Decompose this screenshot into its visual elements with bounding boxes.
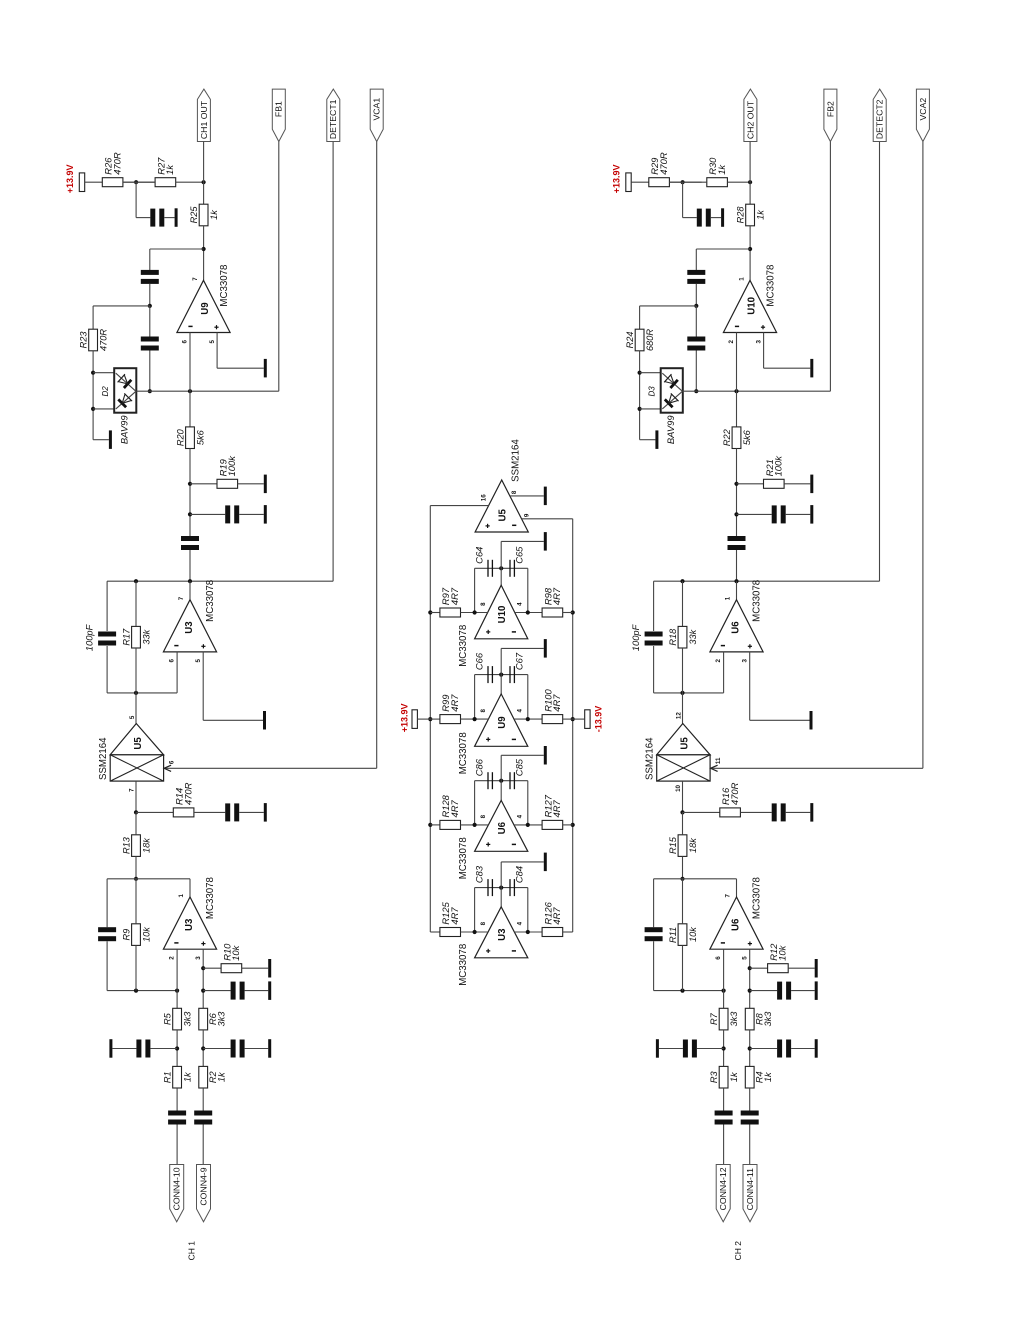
svg-text:U9: U9 xyxy=(497,716,508,729)
svg-text:8: 8 xyxy=(511,490,518,494)
svg-text:9: 9 xyxy=(524,513,531,517)
svg-text:R1: R1 xyxy=(163,1071,173,1083)
svg-text:SSM2164: SSM2164 xyxy=(98,737,109,780)
svg-text:1k: 1k xyxy=(763,1072,773,1082)
svg-text:7: 7 xyxy=(178,596,185,600)
svg-text:1: 1 xyxy=(738,277,745,281)
svg-text:R25: R25 xyxy=(189,206,199,224)
svg-text:33k: 33k xyxy=(688,629,698,644)
svg-text:6: 6 xyxy=(182,340,189,344)
svg-text:R24: R24 xyxy=(625,332,635,349)
svg-text:4R7: 4R7 xyxy=(551,907,562,925)
svg-text:10k: 10k xyxy=(230,944,241,960)
svg-text:C86: C86 xyxy=(474,758,485,776)
svg-text:R11: R11 xyxy=(668,927,678,943)
svg-text:5k6: 5k6 xyxy=(196,429,206,445)
svg-text:DETECT1: DETECT1 xyxy=(328,99,338,139)
svg-text:100k: 100k xyxy=(773,455,784,477)
svg-text:D3: D3 xyxy=(648,386,657,397)
svg-text:6: 6 xyxy=(168,760,175,764)
svg-text:1: 1 xyxy=(725,596,732,600)
svg-text:C85: C85 xyxy=(514,758,525,776)
svg-text:SSM2164: SSM2164 xyxy=(645,737,656,780)
svg-text:SSM2164: SSM2164 xyxy=(511,439,522,482)
svg-text:4R7: 4R7 xyxy=(449,587,460,605)
svg-text:7: 7 xyxy=(725,894,732,898)
svg-text:C65: C65 xyxy=(514,546,525,564)
svg-text:3k3: 3k3 xyxy=(729,1011,739,1027)
svg-text:R3: R3 xyxy=(709,1070,719,1083)
svg-text:1k: 1k xyxy=(756,210,766,220)
svg-text:U3: U3 xyxy=(184,621,195,634)
svg-text:2: 2 xyxy=(728,340,735,344)
svg-text:4R7: 4R7 xyxy=(449,907,460,925)
svg-text:U3: U3 xyxy=(184,918,195,931)
svg-text:R15: R15 xyxy=(668,836,678,854)
svg-text:470R: 470R xyxy=(658,152,669,175)
svg-text:R22: R22 xyxy=(722,429,732,446)
svg-text:4R7: 4R7 xyxy=(449,800,460,818)
svg-text:U5: U5 xyxy=(679,737,690,750)
svg-text:CH1 OUT: CH1 OUT xyxy=(199,100,209,139)
svg-text:BAV99: BAV99 xyxy=(665,415,676,444)
svg-text:10k: 10k xyxy=(142,927,152,942)
svg-text:+13.9V: +13.9V xyxy=(399,704,409,733)
svg-text:3k3: 3k3 xyxy=(183,1011,193,1027)
svg-text:C83: C83 xyxy=(474,865,485,883)
svg-text:5: 5 xyxy=(195,659,202,663)
svg-text:10k: 10k xyxy=(688,927,698,942)
svg-text:CONN4-12: CONN4-12 xyxy=(718,1167,728,1210)
svg-text:+13.9V: +13.9V xyxy=(65,165,75,194)
svg-text:DETECT2: DETECT2 xyxy=(875,99,885,139)
svg-text:7: 7 xyxy=(129,788,136,792)
svg-text:MC33078: MC33078 xyxy=(205,877,216,919)
svg-text:BAV99: BAV99 xyxy=(119,415,130,444)
svg-text:+13.9V: +13.9V xyxy=(612,165,622,194)
svg-text:4R7: 4R7 xyxy=(551,800,562,818)
svg-text:4R7: 4R7 xyxy=(551,587,562,605)
svg-text:MC33078: MC33078 xyxy=(219,265,230,307)
svg-text:R17: R17 xyxy=(121,628,131,646)
svg-text:CH2 OUT: CH2 OUT xyxy=(745,100,755,139)
svg-text:100pF: 100pF xyxy=(84,623,95,651)
svg-text:MC33078: MC33078 xyxy=(205,580,216,622)
svg-text:VCA1: VCA1 xyxy=(372,98,382,121)
svg-text:470R: 470R xyxy=(99,329,109,351)
svg-text:5: 5 xyxy=(129,715,136,719)
svg-text:4: 4 xyxy=(517,602,524,606)
svg-text:10k: 10k xyxy=(777,944,788,960)
svg-text:4: 4 xyxy=(517,709,524,713)
svg-text:MC33078: MC33078 xyxy=(458,625,469,667)
svg-text:FB2: FB2 xyxy=(825,101,835,117)
svg-text:470R: 470R xyxy=(111,152,122,175)
svg-text:MC33078: MC33078 xyxy=(765,265,776,307)
svg-text:11: 11 xyxy=(715,757,722,764)
svg-text:680R: 680R xyxy=(645,329,655,351)
svg-text:CH 1: CH 1 xyxy=(187,1241,197,1261)
svg-text:4: 4 xyxy=(517,814,524,818)
svg-text:C67: C67 xyxy=(514,652,525,670)
svg-text:2: 2 xyxy=(168,956,175,960)
svg-text:CONN4-10: CONN4-10 xyxy=(172,1167,182,1210)
svg-text:U5: U5 xyxy=(497,509,508,522)
svg-text:8: 8 xyxy=(480,814,487,818)
svg-text:5k6: 5k6 xyxy=(742,429,752,445)
svg-text:5: 5 xyxy=(741,956,748,960)
svg-text:8: 8 xyxy=(480,921,487,925)
svg-text:MC33078: MC33078 xyxy=(752,877,763,919)
svg-text:R18: R18 xyxy=(668,628,678,646)
svg-text:12: 12 xyxy=(675,712,682,719)
svg-text:1k: 1k xyxy=(209,210,219,220)
svg-text:R7: R7 xyxy=(709,1012,719,1025)
svg-text:CONN4-11: CONN4-11 xyxy=(745,1168,755,1210)
svg-text:VCA2: VCA2 xyxy=(918,98,928,121)
svg-text:U5: U5 xyxy=(133,737,144,750)
svg-text:CH 2: CH 2 xyxy=(733,1241,743,1261)
svg-text:C64: C64 xyxy=(474,547,485,564)
svg-text:MC33078: MC33078 xyxy=(752,580,763,622)
svg-text:U6: U6 xyxy=(731,918,742,931)
svg-text:U10: U10 xyxy=(746,297,757,315)
svg-text:R9: R9 xyxy=(121,929,131,941)
svg-text:U3: U3 xyxy=(497,928,508,941)
svg-text:R28: R28 xyxy=(736,206,746,224)
svg-text:U9: U9 xyxy=(200,302,211,315)
svg-text:MC33078: MC33078 xyxy=(458,944,469,986)
svg-text:C84: C84 xyxy=(514,866,525,883)
svg-text:1k: 1k xyxy=(216,1072,226,1082)
svg-text:1k: 1k xyxy=(729,1072,739,1082)
svg-text:8: 8 xyxy=(480,709,487,713)
svg-text:U10: U10 xyxy=(497,606,508,624)
svg-text:3: 3 xyxy=(195,956,202,960)
svg-text:100pF: 100pF xyxy=(630,623,641,651)
svg-text:33k: 33k xyxy=(142,629,152,644)
svg-text:U6: U6 xyxy=(731,621,742,634)
svg-text:R20: R20 xyxy=(175,428,185,446)
svg-text:3: 3 xyxy=(755,340,762,344)
svg-text:1k: 1k xyxy=(716,164,727,175)
svg-text:18k: 18k xyxy=(142,838,152,853)
svg-text:D2: D2 xyxy=(101,386,110,397)
svg-text:MC33078: MC33078 xyxy=(458,732,469,774)
svg-text:470R: 470R xyxy=(729,782,740,805)
svg-text:6: 6 xyxy=(715,956,722,960)
svg-text:5: 5 xyxy=(209,340,216,344)
svg-text:R13: R13 xyxy=(121,836,131,854)
svg-text:1k: 1k xyxy=(183,1072,193,1082)
svg-text:FB1: FB1 xyxy=(274,101,284,117)
svg-text:2: 2 xyxy=(715,659,722,663)
svg-text:18k: 18k xyxy=(688,838,698,853)
svg-text:R23: R23 xyxy=(79,331,89,349)
svg-text:4R7: 4R7 xyxy=(551,694,562,712)
svg-text:100k: 100k xyxy=(226,455,237,477)
svg-text:R5: R5 xyxy=(163,1012,173,1025)
svg-text:4R7: 4R7 xyxy=(449,694,460,712)
svg-text:3: 3 xyxy=(741,659,748,663)
svg-text:CONN4-9: CONN4-9 xyxy=(198,1167,208,1205)
svg-text:MC33078: MC33078 xyxy=(458,837,469,879)
svg-text:6: 6 xyxy=(168,659,175,663)
svg-text:-13.9V: -13.9V xyxy=(593,706,603,733)
svg-text:4: 4 xyxy=(517,921,524,925)
svg-text:3k3: 3k3 xyxy=(216,1011,226,1027)
svg-text:1k: 1k xyxy=(164,164,175,175)
svg-text:7: 7 xyxy=(192,277,199,281)
svg-text:U6: U6 xyxy=(497,821,508,834)
svg-text:C66: C66 xyxy=(474,652,485,670)
svg-text:1: 1 xyxy=(178,894,185,898)
svg-text:3k3: 3k3 xyxy=(763,1011,773,1027)
svg-text:16: 16 xyxy=(480,494,487,501)
svg-text:10: 10 xyxy=(675,784,682,791)
svg-text:470R: 470R xyxy=(182,782,193,805)
svg-text:8: 8 xyxy=(480,602,487,606)
